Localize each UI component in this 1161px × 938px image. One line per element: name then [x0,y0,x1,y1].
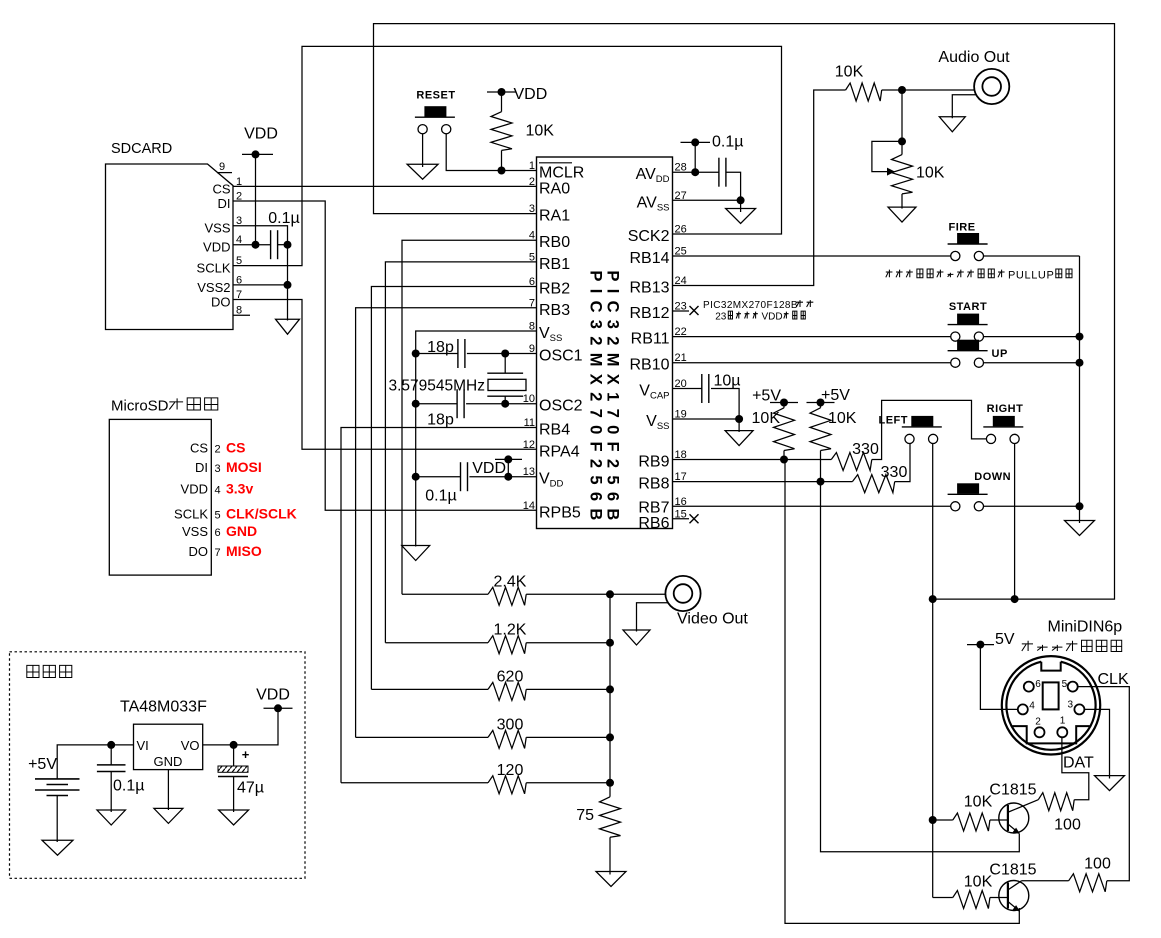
svg-text:DAT: DAT [1063,755,1094,772]
wire SD SCLK to MCU SCK2 [233,46,782,265]
svg-text:9: 9 [219,161,225,173]
MicroSD row DO [189,543,262,559]
svg-text:10K: 10K [828,410,857,427]
svg-text:GND: GND [154,754,183,769]
svg-text:+5V: +5V [752,388,781,405]
wire MiniDIN pin3 to ground [1084,709,1109,778]
wire MCU RB14 to FIRE [673,255,951,257]
svg-text:RPB5: RPB5 [539,504,581,521]
IC U1 pin 3 RA1 [529,203,570,225]
wire MCU pin8 VSS to ground rail [416,331,537,547]
IC U1 pin 13 VDD [523,466,564,490]
pushbutton SW LEFT [879,415,942,444]
IC U1 pin 26 SCK2 [628,224,687,246]
svg-text:Audio Out: Audio Out [938,49,1010,66]
SD card pin 6 VSS2 label [197,274,242,295]
svg-text:RB1: RB1 [539,256,570,273]
wire OSC1 net [412,350,537,358]
svg-text:47µ: 47µ [237,780,264,797]
capacitor C 18p (OSC2) [427,389,464,428]
svg-text:3.579545MHz: 3.579545MHz [389,378,486,395]
resistor R 10K (RB8 pull-up) [810,403,857,482]
wire MCU RA1 top rail to buttons [374,24,1115,600]
label MiniDIN6p [1048,619,1123,636]
IC U1 part number labels [587,270,622,527]
capacitor C 47u polarized (regulator output) [218,745,264,812]
wire video jack sleeve to ground [637,603,669,632]
IC U1 pin 1 MCLR [529,160,584,182]
resistor R 100 (DAT) [1038,793,1081,834]
svg-text:75: 75 [576,807,594,824]
wire RESET right pin to MCLR node [446,134,536,171]
svg-text:120: 120 [497,762,524,779]
svg-text:DI: DI [218,196,231,211]
resistor R 10K (RB9 pull-up) [752,403,795,460]
svg-text:FIRE: FIRE [948,222,975,234]
IC U1 pin 20 VCAP [639,378,686,402]
wire SD pin6 VSS2 to node [233,281,292,289]
svg-text:6: 6 [215,527,221,539]
svg-text:2: 2 [1035,717,1041,728]
svg-text:6: 6 [1035,679,1041,690]
wire RB8 to Q1 emitter [821,482,1020,852]
svg-text:PULLUP: PULLUP [1008,269,1054,281]
svg-text:OSC2: OSC2 [539,398,583,415]
ground (VSS rail) [402,546,430,561]
ground (AVSS) [726,209,756,224]
IC U1 pin 6 RB2 [529,276,570,298]
battery BT +5V [28,756,79,796]
wire common to ground [1079,506,1081,523]
ground (buttons common) [1065,521,1095,536]
SD card pin 3 VSS label [204,215,242,236]
svg-text:TA48M033F: TA48M033F [120,699,207,716]
power symbol +5V (RB9 pull-up) [752,388,798,407]
label DAT [1063,755,1094,772]
wire capacitor to VSS [711,389,743,424]
wire RIGHT right pin down [1011,444,1019,604]
power symbol VDD (MCLR pull-up) [487,86,547,103]
svg-text:MCLR: MCLR [539,165,584,182]
pushbutton SW UP [948,340,1008,368]
svg-text:+: + [242,747,250,762]
svg-text:RA1: RA1 [539,208,570,225]
svg-text:MicroSD: MicroSD [111,398,169,415]
svg-text:VSS2: VSS2 [197,280,230,295]
svg-text:0.1µ: 0.1µ [113,778,144,795]
svg-text:VDD: VDD [256,687,290,704]
wire MCU pin20 VCAP [673,388,702,390]
wire MCU RB3 to 300 ohm [356,308,537,738]
svg-text:2: 2 [215,444,221,456]
svg-text:10K: 10K [752,410,781,427]
svg-text:5: 5 [1062,679,1068,690]
pushbutton SW DOWN [948,471,1012,511]
wire MCU RB10 to UP [673,362,951,364]
svg-text:VI: VI [137,738,149,753]
SD card pin 9 stub [217,161,232,173]
resistor R 75 (video load) [576,783,620,875]
wire audio node to jack [882,86,975,94]
MicroSD row DI [195,459,262,475]
svg-text:VDD: VDD [514,86,548,103]
resistor R 100 (CLK) [1022,856,1111,892]
svg-text:SCK2: SCK2 [628,228,670,245]
label CLK [1098,671,1129,688]
svg-text:100: 100 [1054,817,1081,834]
svg-text:0.1µ: 0.1µ [268,210,299,227]
svg-text:18p: 18p [427,412,454,429]
svg-text:3: 3 [215,463,221,475]
wire VDD symbol to SD pin4 [252,154,260,248]
resistor R 620 (video DAC) [371,668,614,700]
svg-text:RB11: RB11 [631,331,670,348]
power symbol VDD (regulator out) [256,687,292,713]
svg-text:RB10: RB10 [629,357,669,374]
svg-text:0.1µ: 0.1µ [712,134,743,151]
IC U1 pin 16 RB7 [638,496,686,517]
wire UP to common [984,359,1084,367]
svg-text:5V: 5V [995,631,1015,648]
svg-text:5: 5 [215,510,221,522]
wire video summing bus [609,594,611,783]
connector J Video Out [665,576,748,628]
svg-text:DI: DI [195,460,208,475]
SD card connector J1 body [106,141,234,330]
svg-text:PIC32MX270F128B: PIC32MX270F128B [703,300,798,311]
wire capacitor to MCU pin13 VDD [469,473,536,481]
svg-text:330: 330 [881,464,908,481]
svg-text:RB6: RB6 [638,515,669,532]
label power example [27,665,72,677]
IC U1 PIC32MX170F256B body [537,157,673,529]
wire MCU RB4 to 120 ohm [341,428,537,783]
ground (audio jack) [939,117,965,132]
svg-text:RB7: RB7 [638,499,669,516]
wire START to common [984,333,1084,341]
svg-text:10K: 10K [835,64,864,81]
svg-text:26: 26 [675,224,687,236]
wire 330 to RIGHT button [872,400,986,459]
wire 100 to MiniDIN pin1 DAT [1062,737,1089,799]
svg-text:DOWN: DOWN [974,471,1011,483]
wire DOWN to common [984,502,1084,510]
svg-text:RA0: RA0 [539,180,570,197]
resistor R 330 (RIGHT) [831,441,879,471]
IC U1 pin 22 RB11 [631,326,687,348]
svg-text:4: 4 [1029,701,1035,712]
svg-text:RESET: RESET [416,89,455,101]
IC U1 pin 28 AVDD [636,162,687,186]
resistor R 330 (LEFT) [852,464,907,493]
svg-text:+5V: +5V [821,387,850,404]
svg-text:4: 4 [215,485,221,497]
regulator U2 TA48M033F [120,699,207,770]
svg-text:3: 3 [1067,700,1073,711]
svg-text:GND: GND [226,523,257,539]
wire battery plus to VI [57,741,133,779]
svg-text:C1815: C1815 [989,782,1036,799]
IC U1 pin 12 RPA4 [523,439,580,461]
svg-text:DO: DO [211,295,231,310]
svg-text:RB3: RB3 [539,302,570,319]
svg-text:START: START [949,301,987,313]
wire SD pin4 VDD to capacitor [233,244,271,246]
resistor R 10K (audio) [835,64,882,102]
wire battery minus to ground [56,796,58,843]
svg-text:OSC1: OSC1 [539,348,583,365]
svg-text:620: 620 [497,668,524,685]
wire audio jack sleeve to ground [952,95,975,119]
svg-text:330: 330 [852,441,879,458]
connector J Audio Out [938,49,1010,104]
svg-text:Video Out: Video Out [677,611,748,628]
power example dashed box [10,652,306,879]
potentiometer R 10K (volume) [872,141,945,208]
ground (input cap) [97,810,126,825]
svg-text:RB0: RB0 [539,234,570,251]
capacitor C 0.1u (SD card) [268,210,299,259]
wire MCU RB9 [673,456,832,464]
svg-text:MOSI: MOSI [226,459,262,475]
capacitor C 0.1u (regulator input) [97,745,145,812]
IC U1 pin 18 RB9 [638,449,686,471]
IC U1 pin 15 RB6 [638,508,686,532]
svg-text:1: 1 [1060,716,1066,727]
IC U1 pin 10 OSC2 [523,393,583,415]
connector J2 MiniDIN6p front view [1002,656,1100,754]
power symbol VDD (SD card) [242,126,278,159]
svg-text:UP: UP [992,348,1008,360]
svg-text:2.4K: 2.4K [494,573,527,590]
wire VO to VDD [203,708,278,749]
ground (75 ohm) [596,872,626,887]
svg-text:PIC32MX270F256B: PIC32MX270F256B [587,270,605,527]
svg-text:VDD: VDD [472,460,506,477]
svg-text:CS: CS [190,441,208,456]
pushbutton SW START [948,301,988,341]
pushbutton SW RESET [415,89,456,134]
note pin23 (PIC32MX270F128B) [703,300,813,323]
wire AVDD power drop [691,142,699,176]
SD card pin 8 stub [233,305,250,317]
SD card pin 5 SCLK label [197,255,243,276]
MicroSD row VSS [182,523,257,539]
pushbutton SW RIGHT [983,403,1023,444]
svg-text:7: 7 [215,547,221,559]
wire MCU pin19 VSS [673,419,740,432]
svg-text:1.2K: 1.2K [494,622,527,639]
svg-text:RIGHT: RIGHT [987,403,1024,415]
wire 330 to LEFT button [895,444,910,482]
ground (MiniDIN pin3) [1095,776,1125,791]
IC U1 pin 27 AVSS [637,190,687,214]
svg-text:RB8: RB8 [638,476,669,493]
svg-text:CS: CS [226,440,245,456]
wire button common rail [1079,256,1081,506]
svg-text:MISO: MISO [226,543,262,559]
svg-text:DO: DO [189,544,209,559]
svg-text:VDD: VDD [244,126,278,143]
svg-text:RB14: RB14 [629,250,669,267]
svg-text:CLK: CLK [1098,671,1129,688]
wire MCU pin28 AVDD to capacitor [673,171,719,173]
IC U1 pin 14 RPB5 [523,500,581,522]
ground (output cap) [219,810,249,825]
svg-text:23: 23 [715,312,727,323]
note buttons pull-up [886,269,1072,281]
wire MCU RB2 to 620 ohm [371,287,536,690]
svg-text:RB12: RB12 [629,305,669,322]
capacitor C 10u (VCAP) [702,373,741,404]
ground (VSS pin19) [725,431,753,446]
svg-text:VSS: VSS [204,221,230,236]
wire MCU pin27 AVSS [673,200,741,212]
wire MCU RB11 to START [673,336,951,338]
wire LEFT right pin to base rail [929,444,937,898]
power symbol VDD (pin13) [472,455,522,477]
wire video bus to jack [610,593,665,595]
svg-text:10K: 10K [964,874,993,891]
wire 5V to MiniDIN pin4 [980,645,1017,710]
ground (potentiometer) [888,207,916,222]
wire OSC2 net [412,400,537,408]
svg-text:SDCARD: SDCARD [111,141,172,157]
resistor R 120 (video DAC) [341,762,614,794]
SD card pin 2 DI label [218,191,243,212]
power symbol +5V (RB8 pull-up) [807,387,851,407]
IC U1 pin 4 RB0 [529,230,570,252]
IC U1 pin 19 VSS [646,409,687,433]
wire audio node to potentiometer [898,90,906,145]
wire FIRE to common [984,255,1080,257]
MicroSD row SCLK [174,506,297,522]
wire SD DI to MCU RPB5 [233,201,537,510]
IC U1 pin 2 RA0 [529,176,570,198]
wire MCU RB1 to 1.2K [385,262,536,643]
svg-text:10K: 10K [526,123,555,140]
svg-text:0.1µ: 0.1µ [425,488,456,505]
IC U1 pin 9 OSC1 [529,343,583,365]
capacitor C 0.1u (AVDD) [719,158,726,187]
resistor R 10K (Q2 base) [933,874,1008,909]
svg-text:+5V: +5V [28,756,57,773]
svg-text:C1815: C1815 [989,862,1036,879]
wire MCU RB7 to DOWN [673,505,951,507]
svg-text:LEFT: LEFT [879,415,909,427]
IC U1 pin 11 RB4 [524,417,571,439]
svg-text:RB13: RB13 [629,280,669,297]
svg-text:300: 300 [497,716,524,733]
IC U1 pin 5 RB1 [529,251,570,273]
transistor Q1 C1815 [989,782,1038,835]
MicroSD table box [109,419,211,575]
svg-text:MiniDIN6p: MiniDIN6p [1048,619,1123,636]
resistor R 10K (MCLR pull-up) [491,92,554,175]
IC U1 pin 23 RB12 [629,301,686,323]
svg-text:PIC32MX170F256B: PIC32MX170F256B [604,270,622,527]
transistor Q2 C1815 [989,862,1036,912]
wire SD CS to MCU RA0 [233,185,537,187]
svg-text:RPA4: RPA4 [539,443,580,460]
svg-text:RB9: RB9 [638,454,669,471]
svg-text:10K: 10K [916,165,945,182]
wire capacitor to AVSS node [726,172,745,204]
svg-text:3.3v: 3.3v [226,481,253,497]
ground (RESET) [407,164,438,179]
IC U1 pin 8 VSS [529,321,562,345]
wire regulator GND to ground [167,770,169,810]
svg-text:10µ: 10µ [714,373,741,390]
svg-text:RB4: RB4 [539,422,570,439]
capacitor C 18p (OSC1) [427,339,465,368]
svg-text:VO: VO [181,738,200,753]
IC U1 pin 24 RB13 [629,275,686,297]
pushbutton SW FIRE [948,222,988,261]
svg-text:8: 8 [236,305,242,317]
label MicroSD case [111,398,218,415]
SD card pin 7 DO label [211,289,242,310]
wire MCU RB13 to audio filter [673,90,846,286]
capacitor C 0.1u (VDD pin13) [425,462,467,504]
IC U1 pin 7 RB3 [529,297,570,319]
resistor R 10K (Q1 base) [933,794,1008,832]
wire MCU RB0 to 2.4K [402,240,537,594]
ground (video jack) [623,630,650,645]
resistor R 300 (video DAC) [356,716,614,748]
wire RB9 to Q2 emitter [785,460,1019,924]
wire capacitor right to VSS node [278,241,292,249]
resistor R 2.4K (video DAC) [402,573,614,605]
SD card pin 4 VDD label [203,234,242,255]
IC U1 pin 23 no-connect stub and X mark [673,306,699,315]
svg-text:VSS: VSS [182,524,208,539]
IC U1 pin 25 RB14 [629,246,686,268]
SD card pin 1 CS label [212,176,242,197]
svg-text:14: 14 [523,500,535,512]
power symbol 5V (MiniDIN) [967,631,1015,649]
svg-text:CS: CS [212,181,230,196]
svg-text:CLK/SCLK: CLK/SCLK [226,506,297,522]
svg-text:VDD: VDD [762,312,783,323]
wire RESET left pin to ground [422,134,424,167]
power symbol VDD (AVDD) [681,134,744,151]
svg-text:100: 100 [1084,856,1111,873]
svg-text:SCLK: SCLK [174,507,208,522]
ground (regulator) [154,808,183,823]
svg-text:SCLK: SCLK [197,261,231,276]
svg-text:10K: 10K [964,794,993,811]
wire 100 to MiniDIN pin5 CLK [1078,687,1130,881]
wire VSS node down to ground [287,245,289,321]
resistor R 1.2K (video DAC) [385,622,614,654]
wire MCU RB8 [673,478,853,486]
wire VSS rail to capacitor [412,473,461,481]
MicroSD row VDD [181,481,254,497]
svg-text:12: 12 [523,439,535,451]
svg-text:2: 2 [529,176,535,188]
IC U1 pin 21 RB10 [629,352,686,374]
wire SD pin3 VSS down to node [233,226,288,245]
IC U1 pin 17 RB8 [638,471,686,493]
label jack front view [1022,640,1122,651]
crystal X1 3.579545MHz [389,354,527,404]
svg-text:VDD: VDD [203,240,230,255]
svg-text:VDD: VDD [181,482,208,497]
ground (SD card) [276,319,300,334]
IC U1 pin 15 no-connect stub and X mark [673,514,699,523]
svg-text:RB2: RB2 [539,281,570,298]
